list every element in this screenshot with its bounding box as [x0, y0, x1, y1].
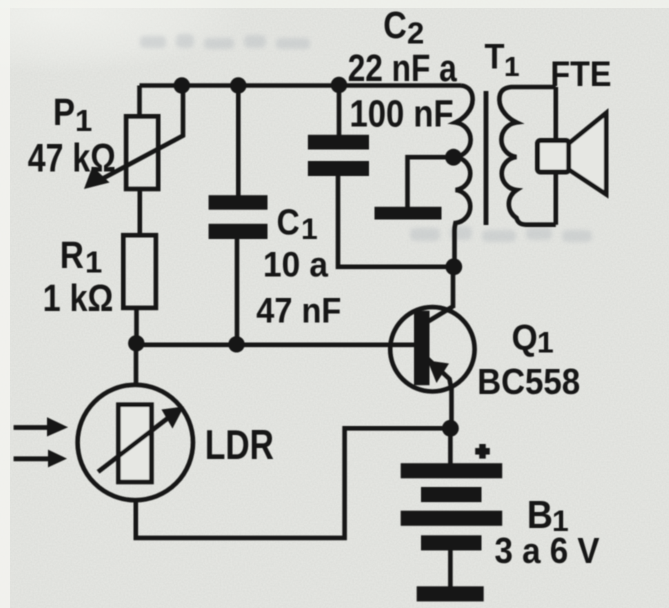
battery B1 bottom terminal plate: [417, 586, 484, 601]
node dot rail-C2: [331, 77, 347, 93]
wire LDR top lead: [134, 344, 139, 384]
wire emitter lead: [449, 388, 454, 428]
transistor Q1 base bar: [414, 311, 430, 386]
capacitor C1 plate bottom: [209, 224, 268, 239]
wire R1 bottom lead: [134, 307, 139, 344]
node dot emitter junction: [442, 420, 459, 437]
wire LDR bottom return: [136, 428, 451, 538]
svg-text:C: C: [383, 5, 407, 47]
light arrow 2 head: [48, 450, 67, 468]
svg-text:LDR: LDR: [205, 421, 274, 468]
node dot transformer tap: [445, 149, 462, 166]
transistor Q1 collector stroke: [428, 307, 453, 322]
light arrow 2 shaft: [14, 456, 51, 461]
svg-text:47 nF: 47 nF: [256, 292, 341, 331]
wire C1 top lead: [236, 86, 241, 197]
capacitor C1 plate top: [209, 195, 268, 210]
svg-text:FTE: FTE: [550, 55, 611, 94]
transistor Q1 emitter arrowhead: [428, 361, 450, 384]
LDR diagonal arrow shaft: [98, 418, 168, 472]
light arrow 1 head: [47, 417, 68, 436]
battery B1 plate 1: [401, 463, 503, 478]
svg-text:1 kΩ: 1 kΩ: [43, 278, 114, 320]
node dot rail-P1 wiper: [174, 77, 190, 93]
transformer T1 primary winding: [455, 86, 473, 267]
node dot R1-LDR: [128, 335, 144, 351]
light arrow 1 shaft: [14, 425, 50, 430]
transistor Q1 emitter stroke: [428, 359, 452, 391]
transistor Q1 circle: [390, 307, 474, 391]
battery plus sign: [475, 444, 490, 459]
svg-text:1: 1: [537, 327, 554, 360]
svg-text:R: R: [60, 235, 84, 277]
wire top rail: [140, 83, 462, 88]
transformer T1 secondary winding: [499, 87, 555, 225]
svg-text:47 kΩ: 47 kΩ: [28, 137, 116, 181]
node dot C1-base: [228, 336, 244, 352]
wire battery positive lead: [448, 428, 453, 464]
resistor R1 body: [123, 235, 156, 308]
svg-text:1: 1: [75, 103, 92, 138]
svg-text:2: 2: [407, 16, 424, 51]
transformer T1 core: [484, 91, 489, 225]
speaker horn: [569, 113, 606, 194]
lighter scan edges: [0, 0, 10, 608]
faint print bleed-through smudges: [140, 34, 592, 242]
wire P1-R1 link: [138, 188, 143, 236]
svg-text:P: P: [53, 92, 75, 134]
svg-text:T: T: [485, 37, 505, 76]
svg-text:Q: Q: [512, 317, 538, 358]
svg-text:1: 1: [504, 51, 520, 82]
LDR body rectangle: [118, 405, 151, 482]
potentiometer P1 wiper: [100, 86, 183, 181]
wire base rail: [136, 342, 416, 347]
LDR circle: [78, 385, 193, 500]
svg-text:100 nF: 100 nF: [350, 94, 454, 136]
tap terminal bar: [375, 207, 442, 220]
node dot rail-C1: [230, 77, 246, 93]
wire P1 top lead: [137, 86, 142, 118]
wire speaker vertical: [553, 87, 558, 225]
node dot collector junction: [445, 258, 462, 275]
LDR arrowhead: [162, 407, 185, 429]
svg-text:BC558: BC558: [477, 361, 580, 402]
capacitor C2 plate top: [308, 135, 369, 150]
svg-text:1: 1: [301, 213, 318, 246]
wire C1 bottom lead: [235, 239, 240, 345]
wire tap to bar: [408, 157, 453, 207]
wire battery inner link: [448, 550, 453, 587]
capacitor C2 plate bottom: [308, 161, 369, 176]
battery B1 plate 4: [421, 535, 482, 550]
svg-text:3 a 6 V: 3 a 6 V: [495, 530, 600, 571]
svg-text:C: C: [277, 201, 300, 242]
svg-text:10 a: 10 a: [263, 246, 329, 285]
battery B1 plate 2: [421, 487, 482, 502]
battery B1 plate 3: [401, 511, 503, 526]
svg-text:1: 1: [85, 245, 102, 280]
speaker driver square: [538, 141, 569, 173]
wire C2 top lead: [337, 86, 342, 137]
wire collector lead: [451, 267, 456, 308]
wire C2 bottom lead: [338, 176, 454, 267]
potentiometer P1 arrowhead: [84, 167, 110, 190]
potentiometer P1 body: [126, 116, 158, 189]
svg-text:22 nF a: 22 nF a: [348, 48, 458, 90]
